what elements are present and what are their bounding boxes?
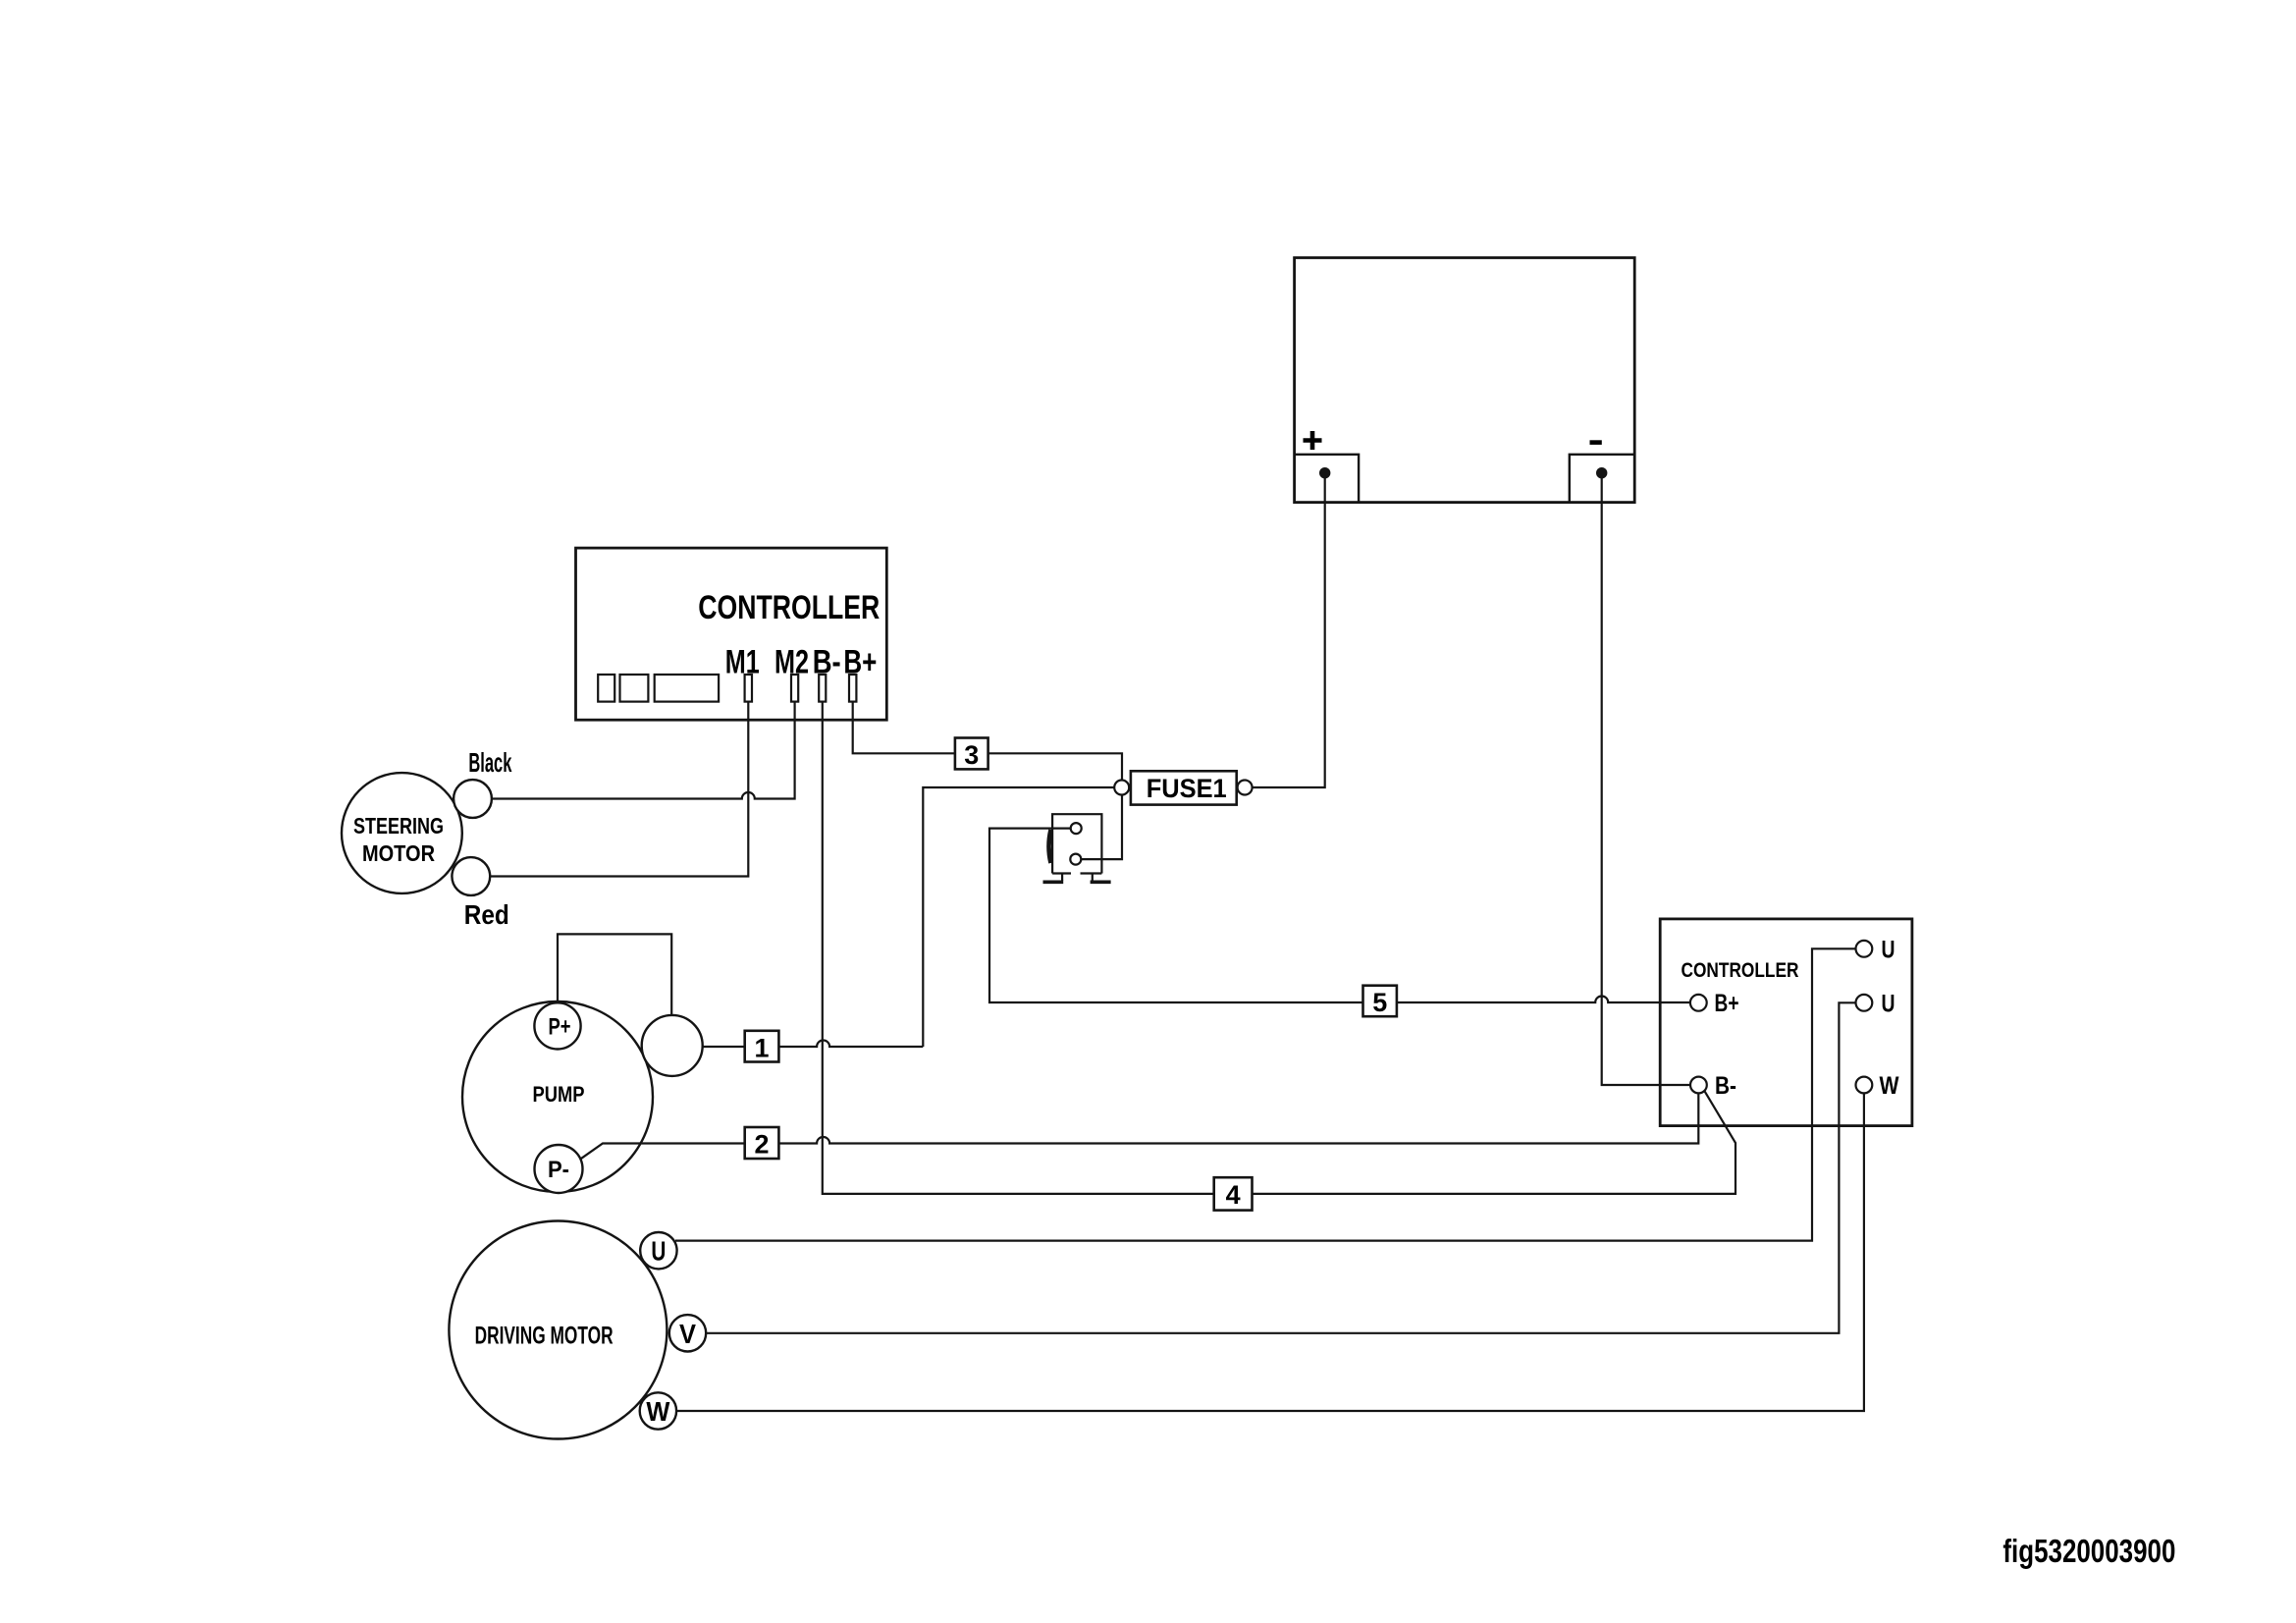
- fuse right junction circle: [1238, 781, 1253, 795]
- junction box 4: [1214, 1177, 1253, 1210]
- battery positive stud dot: [1319, 467, 1330, 478]
- wire B+ pin through box 3 to fuse junction: [853, 702, 955, 754]
- wire box 3 to fuse junction vertical: [988, 753, 1122, 780]
- connector slot 1: [598, 675, 614, 702]
- wire node A to fuse junction: [923, 787, 1114, 1047]
- svg-text:1: 1: [755, 1034, 770, 1063]
- pump P+ terminal: [534, 1002, 580, 1049]
- svg-text:B-: B-: [1715, 1072, 1736, 1100]
- svg-text:Red: Red: [464, 899, 509, 930]
- wire pump P+ loop to aux terminal: [558, 934, 671, 1015]
- steering motor M2 circle: [342, 773, 462, 893]
- svg-text:PUMP: PUMP: [533, 1082, 585, 1107]
- steering motor black terminal: [454, 780, 492, 818]
- controller U2 W terminal circle: [1856, 1077, 1873, 1094]
- wire 2 run pump P- to controller U2 B- (hop over B- wire): [580, 1093, 1699, 1159]
- wire driving motor V to controller U2 terminal U2: [706, 1002, 1855, 1333]
- contactor foot left: [1043, 874, 1064, 883]
- battery BT1 box: [1295, 258, 1635, 503]
- driving motor U terminal: [640, 1232, 676, 1269]
- pin B-: [819, 675, 826, 702]
- svg-text:DRIVING MOTOR: DRIVING MOTOR: [475, 1323, 614, 1350]
- svg-text:B+: B+: [1715, 990, 1739, 1017]
- wire driving motor U to controller U2 terminal U1: [675, 948, 1856, 1240]
- svg-text:CONTROLLER: CONTROLLER: [698, 589, 880, 626]
- pump motor M3 circle: [462, 1001, 653, 1192]
- controller U2 U2 terminal circle: [1856, 995, 1873, 1011]
- battery negative stud dot: [1596, 467, 1607, 478]
- driving motor M1 circle: [449, 1221, 667, 1439]
- svg-text:CONTROLLER: CONTROLLER: [1682, 959, 1799, 982]
- controller U2 B- terminal circle: [1690, 1077, 1707, 1094]
- pin B+: [849, 675, 856, 702]
- wire battery + down to fuse line: [1253, 475, 1325, 787]
- battery + label: [1304, 431, 1322, 450]
- junction box 2: [745, 1127, 779, 1159]
- steering motor label: [353, 813, 444, 866]
- wire B- pin down to wire 4 run: [823, 702, 1214, 1194]
- svg-text:5: 5: [1372, 988, 1387, 1017]
- wire driving motor W to controller U2 terminal W: [676, 1093, 1864, 1411]
- wire M2 to steering motor black terminal (hop over M1 wire): [492, 702, 795, 799]
- driving motor V terminal: [669, 1315, 706, 1351]
- wire M1 to steering motor red terminal: [490, 702, 748, 877]
- pump aux terminal circle: [642, 1015, 703, 1076]
- driving motor W terminal: [640, 1392, 676, 1429]
- contactor K1 body: [1052, 814, 1101, 873]
- svg-text:U: U: [1882, 936, 1896, 963]
- svg-text:Black: Black: [468, 747, 511, 778]
- controller U2 U1 terminal circle: [1856, 941, 1873, 957]
- contactor top terminal circle: [1071, 823, 1082, 834]
- svg-text:P+: P+: [549, 1014, 571, 1041]
- svg-text:STEERING: STEERING: [353, 813, 444, 839]
- contactor K1 coil wire: [989, 829, 1363, 1002]
- pump P- terminal: [535, 1145, 583, 1193]
- connector slot 3: [655, 675, 719, 702]
- controller U2 (right) box: [1660, 919, 1912, 1126]
- wire 5 to controller U2 B+ (hop over battery - wire): [1397, 997, 1690, 1002]
- battery positive terminal box: [1295, 455, 1360, 503]
- connector slot 2: [620, 675, 649, 702]
- svg-text:4: 4: [1226, 1180, 1241, 1210]
- svg-text:MOTOR: MOTOR: [362, 840, 435, 866]
- svg-text:M1: M1: [725, 644, 760, 681]
- contactor blade: [1049, 830, 1051, 863]
- battery negative terminal box: [1570, 455, 1634, 503]
- svg-text:W: W: [646, 1396, 670, 1427]
- steering motor red terminal: [452, 857, 490, 895]
- fuse left junction circle: [1114, 781, 1129, 795]
- pin M1: [745, 675, 752, 702]
- contactor bottom terminal circle: [1070, 854, 1081, 865]
- svg-text:V: V: [679, 1319, 696, 1349]
- svg-text:3: 3: [964, 740, 979, 770]
- battery - label: [1590, 440, 1602, 445]
- svg-text:fig5320003900: fig5320003900: [2002, 1533, 2175, 1569]
- contactor foot right: [1091, 874, 1111, 883]
- svg-text:W: W: [1880, 1072, 1899, 1100]
- junction box 5: [1363, 986, 1397, 1016]
- svg-text:U: U: [651, 1236, 666, 1267]
- fuse F1 box: [1131, 771, 1237, 804]
- svg-text:P-: P-: [548, 1157, 569, 1183]
- wire 4 to controller U2 B-: [1253, 1091, 1736, 1194]
- pin M2: [791, 675, 798, 702]
- junction box 1: [745, 1031, 779, 1062]
- wire fuse junction down to contactor bottom contact: [1081, 795, 1122, 860]
- junction box 3: [955, 738, 988, 770]
- svg-text:FUSE1: FUSE1: [1147, 774, 1227, 803]
- wire 1 run from pump aux to node A (hop over B- wire): [703, 1041, 924, 1048]
- controller U2 B+ terminal circle: [1690, 995, 1707, 1011]
- svg-text:U: U: [1882, 990, 1896, 1017]
- controller U1 (left) box: [576, 548, 887, 720]
- svg-text:2: 2: [755, 1130, 770, 1160]
- wire battery - down to controller B-: [1602, 475, 1690, 1085]
